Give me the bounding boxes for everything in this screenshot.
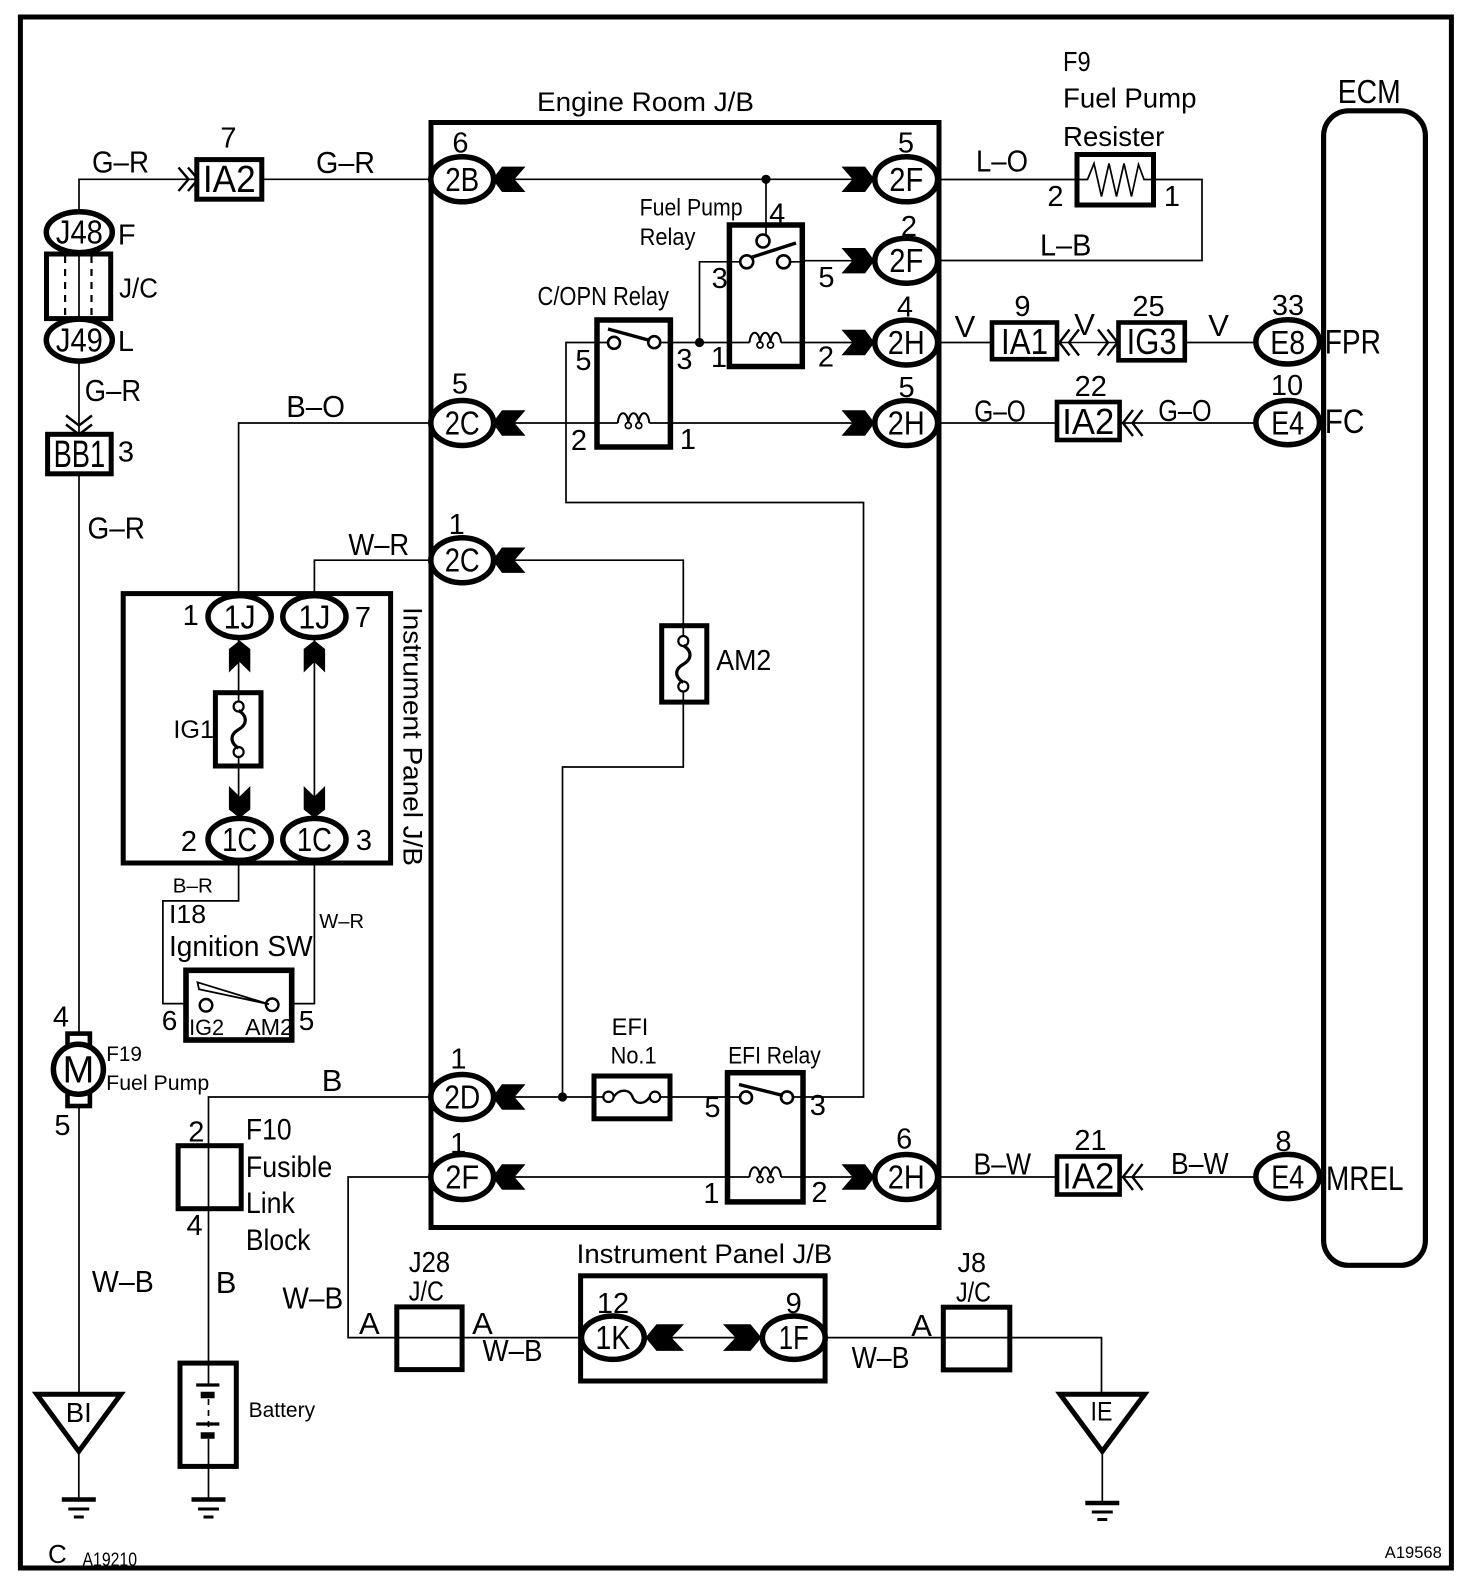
connector 2C pin 5: [431, 401, 494, 446]
svg-text:J8: J8: [958, 1247, 987, 1278]
svg-text:1C: 1C: [222, 821, 257, 858]
svg-text:ECM: ECM: [1338, 73, 1401, 110]
fuse AM2: [662, 626, 707, 702]
svg-text:FPR: FPR: [1325, 324, 1381, 362]
connector J48 pin F: [46, 212, 112, 253]
connector 2H pin 6: [875, 1155, 938, 1200]
svg-text:F19: F19: [106, 1043, 142, 1066]
svg-text:Relay: Relay: [640, 224, 696, 251]
svg-text:5: 5: [704, 1092, 720, 1124]
wire fuel pump relay pin3 down to junction: [700, 262, 730, 343]
chevron pair pointing left after IA2: [1123, 1164, 1143, 1190]
connector 1J pin 7: [283, 596, 346, 638]
junction node row3: [695, 338, 704, 347]
ground symbol (battery): [192, 1500, 226, 1518]
svg-text:1: 1: [711, 342, 727, 374]
fuel pump relay box: [729, 225, 802, 367]
svg-text:B: B: [216, 1265, 237, 1300]
junction connector J8 J/C: [943, 1307, 1010, 1370]
wire G-R from IA2 to 2B: [262, 178, 431, 180]
junction connector J28 J/C: [397, 1307, 462, 1370]
junction connector J/C box: [47, 254, 111, 319]
svg-text:L: L: [118, 326, 134, 358]
ECM box: [1324, 111, 1426, 1266]
svg-text:J48: J48: [56, 214, 103, 251]
svg-text:Ignition SW: Ignition SW: [169, 931, 313, 963]
fuel pump relay pin 4 contact: [757, 235, 770, 248]
svg-text:No.1: No.1: [611, 1043, 657, 1070]
svg-text:25: 25: [1132, 291, 1164, 323]
svg-text:2H: 2H: [888, 1159, 925, 1196]
svg-text:E4: E4: [1271, 1159, 1304, 1196]
svg-text:1C: 1C: [297, 821, 332, 858]
ground triangle BI: [37, 1394, 121, 1451]
wire stubs inside IG1 fuse: [238, 693, 240, 766]
svg-text:L–B: L–B: [1040, 228, 1091, 263]
connector 1C pin 3: [283, 818, 346, 860]
connector E4 pin 8: [1256, 1154, 1320, 1198]
svg-text:22: 22: [1075, 371, 1107, 403]
svg-text:8: 8: [1275, 1126, 1291, 1158]
svg-text:IG1: IG1: [173, 716, 214, 744]
Instrument Panel J/B box (top): [123, 594, 390, 863]
wire BI to ground: [78, 1451, 80, 1499]
svg-text:3: 3: [356, 825, 372, 857]
svg-text:W–B: W–B: [282, 1281, 343, 1316]
svg-text:Link: Link: [246, 1187, 295, 1220]
wire row1 2B to 2F5: [461, 178, 906, 180]
svg-text:4: 4: [187, 1210, 203, 1242]
svg-text:5: 5: [898, 128, 914, 160]
svg-text:V: V: [955, 309, 976, 344]
fuse IG1: [215, 693, 261, 766]
svg-text:2F: 2F: [445, 1159, 479, 1196]
svg-text:2H: 2H: [888, 324, 925, 361]
svg-text:33: 33: [1272, 290, 1304, 322]
arrow left at 2C5: [493, 410, 526, 435]
svg-text:G–R: G–R: [316, 145, 375, 180]
svg-text:W–B: W–B: [92, 1264, 154, 1299]
svg-text:6: 6: [896, 1124, 912, 1156]
svg-text:BI: BI: [66, 1397, 92, 1428]
wire L-B resistor to 2F2: [938, 180, 1202, 261]
C/OPN relay box: [597, 320, 670, 447]
battery: [180, 1363, 236, 1466]
connector 2H pin 5: [875, 401, 938, 446]
connector E4 pin 10: [1256, 401, 1320, 445]
wire row 2F1 to EFI relay pin1: [461, 1176, 728, 1178]
connector 2F pin 5: [875, 157, 938, 202]
svg-text:1: 1: [450, 1044, 466, 1076]
svg-text:Instrument Panel J/B: Instrument Panel J/B: [398, 607, 428, 866]
svg-text:3: 3: [676, 344, 692, 376]
connector IA1 pin 9: [992, 321, 1057, 362]
connector 1K pin 12: [582, 1316, 645, 1359]
wire AM2 fuse down and left to EFI No.1: [563, 702, 684, 1097]
arrow left at 2D: [493, 1084, 526, 1109]
svg-text:1: 1: [703, 1178, 719, 1210]
connector IA2 pin 7 (top left): [197, 159, 262, 201]
chevron pair pointing down above BB1: [66, 416, 92, 435]
wire row4 2C5 to C/OPN pin2: [461, 422, 597, 424]
svg-text:5: 5: [54, 1110, 70, 1142]
svg-text:1: 1: [450, 1128, 466, 1160]
svg-text:V: V: [1208, 308, 1229, 343]
connector IA2 pin 21: [1057, 1156, 1120, 1197]
svg-text:5: 5: [818, 262, 834, 294]
fuel pump motor F19: [53, 1034, 103, 1106]
ignition switch I18 box: [186, 970, 292, 1040]
svg-text:Fuel Pump: Fuel Pump: [1063, 83, 1197, 114]
svg-text:6: 6: [162, 1005, 178, 1036]
ignition switch contacts IG2 and AM2: [200, 999, 213, 1012]
connector 1J pin 1: [208, 596, 271, 638]
svg-text:Fuel Pump: Fuel Pump: [640, 195, 743, 222]
chevron pair pointing left after IA2: [1123, 410, 1143, 436]
fuel pump relay switch contacts: [740, 255, 753, 268]
svg-text:1: 1: [183, 600, 199, 632]
svg-text:7: 7: [355, 602, 371, 634]
wire stubs inside EFI No.1 fuse: [594, 1096, 670, 1098]
arrow down above 1C3: [304, 786, 325, 818]
svg-text:4: 4: [53, 1002, 69, 1034]
ground triangle IE: [1060, 1394, 1145, 1451]
svg-text:Resister: Resister: [1063, 121, 1164, 152]
svg-text:Fuel Pump: Fuel Pump: [106, 1072, 209, 1095]
connector 2D pin 1: [431, 1075, 494, 1120]
svg-text:2C: 2C: [445, 542, 480, 579]
svg-text:G–R: G–R: [85, 373, 141, 408]
svg-text:1J: 1J: [224, 598, 256, 635]
svg-text:I18: I18: [169, 899, 206, 929]
svg-text:1F: 1F: [779, 1319, 809, 1356]
svg-text:EFI Relay: EFI Relay: [728, 1043, 821, 1070]
wire loop C/OPN pin5 to EFI relay pin3: [566, 343, 864, 1098]
svg-text:BB1: BB1: [54, 434, 106, 476]
wire B-W 2H6 to IA2: [938, 1176, 1057, 1178]
connector IG3 pin 25: [1119, 321, 1185, 362]
svg-text:F10: F10: [246, 1113, 292, 1146]
svg-text:2: 2: [818, 342, 834, 374]
svg-text:J49: J49: [56, 322, 103, 359]
svg-text:Battery: Battery: [249, 1399, 316, 1422]
svg-text:2: 2: [571, 425, 587, 457]
svg-text:V: V: [1074, 307, 1095, 342]
wire 1J1 to 1C2 through IG1: [238, 638, 240, 819]
arrow left at 2B: [493, 167, 526, 192]
svg-text:9: 9: [786, 1288, 802, 1320]
svg-text:7: 7: [220, 123, 236, 155]
fusible link block F10: [178, 1146, 241, 1209]
svg-text:F: F: [118, 220, 136, 252]
wire to relay pin 4: [765, 179, 767, 234]
wire G-R J49 to BB1: [78, 361, 80, 434]
wire W-B fuel pump to BI: [78, 1106, 80, 1394]
svg-text:W–R: W–R: [348, 527, 409, 562]
svg-text:Instrument Panel J/B: Instrument Panel J/B: [577, 1239, 833, 1269]
connector 1F pin 9: [762, 1316, 825, 1359]
connector J49 pin L: [46, 319, 112, 361]
svg-text:IA2: IA2: [1062, 401, 1114, 442]
svg-text:2F: 2F: [889, 161, 923, 198]
svg-text:5: 5: [899, 372, 915, 404]
wire stubs inside EFI relay: [728, 1097, 804, 1177]
ignition switch blade: [198, 982, 270, 1004]
arrow right at 2F5: [842, 167, 875, 192]
arrow right at 2H6: [842, 1164, 875, 1189]
Engine Room J/B box: [431, 123, 939, 1228]
arrow up below 1J1: [229, 641, 250, 673]
wire IE to ground: [1101, 1451, 1103, 1501]
svg-text:4: 4: [897, 292, 913, 324]
svg-text:IA1: IA1: [1001, 321, 1048, 362]
svg-text:5: 5: [452, 369, 468, 401]
wire 2C1 to AM2 fuse: [461, 560, 683, 626]
arrow right at 1F: [723, 1324, 762, 1351]
svg-text:2: 2: [811, 1177, 827, 1209]
svg-text:J/C: J/C: [119, 273, 158, 304]
svg-text:C: C: [48, 1539, 67, 1569]
wire stubs inside C/OPN relay: [597, 343, 670, 424]
connector 2B pin 6: [431, 157, 494, 202]
EFI relay coil: [750, 1167, 782, 1182]
svg-text:EFI: EFI: [612, 1014, 649, 1041]
wire EFI No.1 fuse to EFI relay pin5: [670, 1096, 728, 1098]
arrow right at 2F2: [842, 248, 875, 273]
connector 2H pin 4: [875, 320, 938, 365]
wire G-O to E4: [1120, 422, 1256, 424]
svg-text:2C: 2C: [445, 405, 480, 442]
svg-text:W–B: W–B: [852, 1340, 910, 1375]
wire 1J7 to 1C3: [313, 638, 315, 819]
svg-text:B–W: B–W: [1171, 1146, 1229, 1181]
arrow right at 2H5: [842, 410, 875, 435]
ground symbol (BI): [62, 1500, 96, 1518]
svg-text:2F: 2F: [889, 242, 923, 279]
wire G-R BB1 to fuel pump: [78, 474, 80, 1035]
svg-text:L–O: L–O: [976, 144, 1028, 179]
chevron pair pointing left after IA1: [1060, 330, 1080, 356]
wire between 1K and 1F: [644, 1337, 762, 1339]
wire W-R 2C1 to 1J7: [314, 560, 430, 595]
wire W-B 2F1 to J28: [348, 1177, 431, 1338]
svg-text:IA2: IA2: [203, 159, 256, 201]
wire W-B 1F to J8: [825, 1337, 943, 1339]
connector 2C pin 1: [431, 538, 494, 583]
svg-text:E8: E8: [1270, 324, 1305, 361]
Instrument Panel J/B box (bottom): [581, 1276, 826, 1381]
svg-text:1: 1: [449, 509, 465, 541]
svg-text:12: 12: [597, 1288, 629, 1320]
chevron pair pointing right before IA2: [179, 168, 199, 192]
svg-text:3: 3: [118, 437, 134, 469]
svg-text:G–O: G–O: [1158, 393, 1211, 428]
connector 2F pin 1: [431, 1155, 494, 1200]
svg-text:21: 21: [1074, 1125, 1106, 1157]
junction node 2D row: [558, 1092, 567, 1101]
arrow down above 1C2: [229, 786, 250, 818]
C/OPN coil: [618, 413, 650, 428]
wire V 2H4 to IA1: [938, 342, 992, 344]
svg-text:10: 10: [1271, 370, 1303, 402]
svg-text:3: 3: [712, 263, 728, 295]
svg-text:A: A: [359, 1306, 380, 1341]
fuel pump relay coil: [750, 333, 782, 348]
arrow up below 1J7: [304, 641, 325, 673]
svg-text:IE: IE: [1091, 1397, 1113, 1427]
wire row2 relay pin5 to 2F2: [802, 260, 906, 262]
EFI relay switch contacts: [740, 1091, 752, 1103]
svg-text:3: 3: [810, 1090, 826, 1122]
wire row3 relay pin2 to 2H4: [802, 342, 906, 344]
connector 2F pin 2: [875, 238, 938, 283]
wire G-O 2H5 to IA2: [938, 422, 1057, 424]
svg-text:G–R: G–R: [92, 145, 149, 180]
svg-text:Engine Room J/B: Engine Room J/B: [537, 87, 754, 117]
svg-text:A19210: A19210: [83, 1550, 138, 1571]
svg-text:C/OPN Relay: C/OPN Relay: [538, 283, 670, 311]
svg-text:FC: FC: [1325, 403, 1365, 441]
svg-text:W–B: W–B: [483, 1333, 543, 1368]
arrow left at 2F1: [493, 1164, 526, 1189]
wire B F10 to battery: [208, 1209, 210, 1363]
connector IA2 pin 22: [1057, 401, 1120, 442]
wire G-R from J48 up to IA2: [79, 179, 197, 232]
wire B-O 2C5 to 1J1: [239, 423, 431, 596]
svg-text:J/C: J/C: [956, 1277, 991, 1308]
arrow left at 1K: [646, 1324, 685, 1351]
C/OPN switch blade: [608, 329, 650, 341]
junction node row1 to fuel pump relay pin4: [761, 175, 770, 184]
svg-text:AM2: AM2: [716, 645, 771, 677]
wire B from F10 corner to 2D: [209, 1097, 431, 1146]
svg-text:MREL: MREL: [1326, 1160, 1404, 1198]
svg-text:IG2: IG2: [189, 1015, 224, 1040]
svg-text:Block: Block: [246, 1224, 311, 1257]
wire J8 to IE: [1010, 1338, 1102, 1394]
svg-text:B–O: B–O: [286, 389, 345, 424]
wire W-B J28 to 1K: [462, 1337, 581, 1339]
svg-text:AM2: AM2: [245, 1014, 293, 1040]
EFI relay box: [728, 1073, 804, 1202]
svg-text:G–R: G–R: [88, 511, 146, 546]
svg-text:J28: J28: [409, 1247, 450, 1279]
svg-text:IA2: IA2: [1062, 1156, 1114, 1197]
svg-text:1: 1: [1164, 181, 1180, 213]
fuse EFI No.1: [594, 1076, 670, 1119]
arrow right at 2H4: [842, 330, 875, 355]
resistor F9 fuel pump resister: [1077, 155, 1154, 206]
svg-text:B–R: B–R: [173, 875, 213, 898]
wire W-R 1C3 to ignition SW pin 5: [295, 860, 315, 1003]
svg-text:2D: 2D: [444, 1079, 480, 1116]
wire V IG3 to E8: [1185, 342, 1256, 344]
C/OPN switch contacts: [608, 337, 620, 349]
svg-text:2B: 2B: [445, 161, 479, 198]
EFI relay switch blade: [739, 1085, 783, 1096]
svg-text:B–W: B–W: [974, 1147, 1032, 1182]
connector E8 pin 33: [1256, 320, 1320, 364]
svg-text:2: 2: [1047, 181, 1063, 213]
svg-text:A: A: [911, 1308, 932, 1343]
fuel pump relay switch blade: [751, 243, 796, 258]
chevron pair pointing right before IG3: [1098, 330, 1118, 356]
wire row3 C/OPN pin3 to relay pin1: [670, 342, 729, 344]
svg-text:5: 5: [299, 1005, 315, 1036]
svg-text:2H: 2H: [888, 405, 925, 442]
ground symbol (IE): [1085, 1503, 1119, 1520]
svg-text:E4: E4: [1271, 405, 1304, 442]
connector BB1 pin 3: [48, 434, 112, 476]
wire EFI relay pin2 to 2H6: [803, 1176, 906, 1178]
svg-text:A19568: A19568: [1385, 1543, 1442, 1562]
svg-text:5: 5: [575, 345, 591, 377]
svg-text:IG3: IG3: [1127, 321, 1177, 362]
svg-text:1K: 1K: [595, 1319, 630, 1356]
connector 1C pin 2: [208, 818, 271, 860]
svg-text:6: 6: [452, 128, 468, 160]
svg-text:Fusible: Fusible: [246, 1151, 332, 1184]
wire row 2D to EFI No.1 fuse: [461, 1096, 594, 1098]
wire B-W to E4: [1120, 1176, 1256, 1178]
svg-text:B: B: [322, 1063, 343, 1098]
wire stubs inside fuel pump relay: [729, 262, 802, 343]
wire L-O 2F5 to resistor: [938, 179, 1077, 181]
svg-text:W–R: W–R: [319, 910, 364, 933]
svg-text:2: 2: [901, 211, 917, 243]
svg-text:J/C: J/C: [409, 1276, 444, 1307]
wire stubs inside AM2 fuse: [682, 626, 684, 702]
arrow left at 2C1: [493, 548, 526, 573]
wire row4 C/OPN pin1 to 2H5: [670, 422, 906, 424]
wire battery to ground: [208, 1466, 210, 1499]
svg-text:2: 2: [181, 826, 197, 858]
svg-text:F9: F9: [1063, 46, 1091, 77]
svg-text:1J: 1J: [298, 598, 330, 635]
svg-text:9: 9: [1014, 291, 1030, 323]
svg-text:1: 1: [680, 424, 696, 456]
svg-text:G–O: G–O: [974, 394, 1026, 429]
wire B-R 1C2 to ignition SW pin 6: [163, 860, 239, 1003]
svg-text:M: M: [63, 1050, 95, 1092]
